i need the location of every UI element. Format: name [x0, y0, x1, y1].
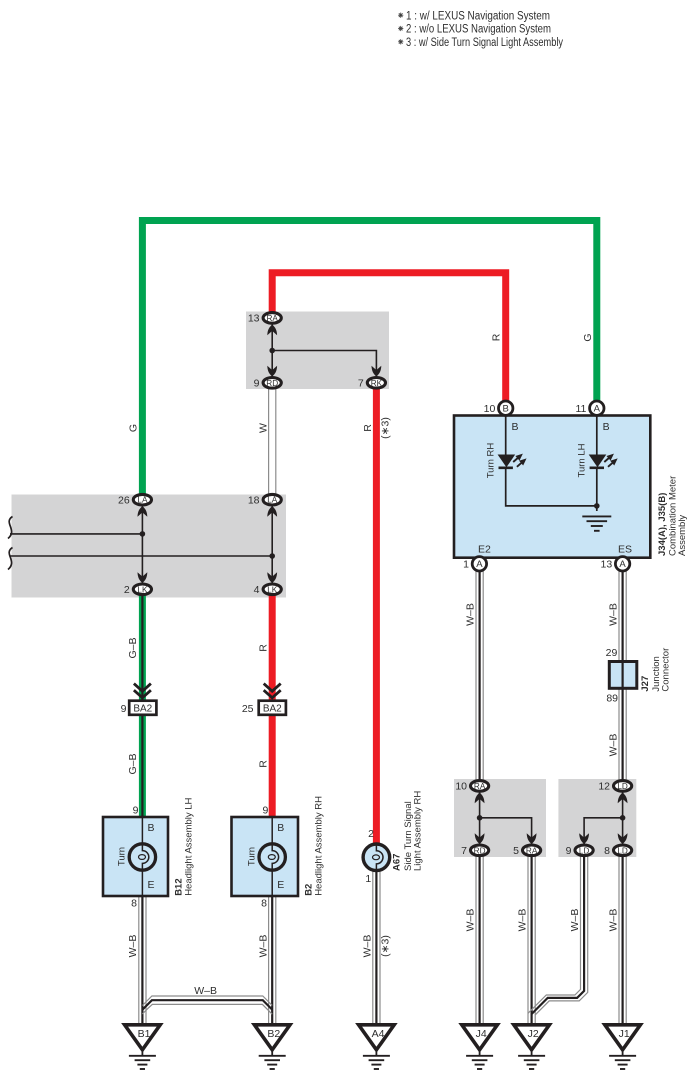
- svg-text:LA: LA: [267, 496, 278, 505]
- svg-text:B: B: [503, 404, 509, 415]
- svg-text:1: 1: [365, 873, 371, 885]
- oval terminal 18 LA: [263, 494, 281, 505]
- svg-text:13: 13: [248, 313, 260, 325]
- svg-text:LD: LD: [617, 846, 628, 855]
- shield connector 25 BA2: [259, 701, 286, 715]
- connector block shield (lower LD/LD/LD): [558, 779, 636, 857]
- wire: branch to 9LD: [584, 818, 623, 845]
- wire: vertical LA-LK right: [271, 504, 273, 585]
- wire W-B: 7RD to J4 ground: [476, 856, 483, 1025]
- wire R: red from 7RK to side turn signal A67: [373, 387, 380, 846]
- svg-text:8: 8: [131, 898, 137, 910]
- svg-text:Turn: Turn: [117, 847, 128, 866]
- svg-text:W–B: W–B: [516, 909, 528, 932]
- svg-text:Turn: Turn: [246, 847, 257, 866]
- svg-text:B: B: [277, 822, 284, 834]
- svg-text:26: 26: [118, 494, 130, 506]
- wire: branch RA to RK: [272, 351, 376, 379]
- ground J1: [605, 1025, 641, 1069]
- arrow down into 7RD: [475, 833, 485, 844]
- svg-text:G–B: G–B: [127, 753, 139, 774]
- svg-text:LK: LK: [267, 585, 278, 594]
- svg-text:B2: B2: [267, 1028, 280, 1040]
- svg-text:W–B: W–B: [464, 603, 476, 626]
- arrow down into 7RK: [372, 366, 382, 377]
- oval terminal 13 RA: [263, 313, 281, 324]
- wire W-B: headlight RH to B2 ground: [269, 896, 276, 1025]
- svg-text:A: A: [619, 559, 626, 570]
- svg-text:Headlight Assembly LH: Headlight Assembly LH: [184, 797, 195, 895]
- wire W-B: A67 to A4 ground: [373, 869, 380, 1025]
- wire: vertical 10RA to 7RD: [479, 791, 481, 845]
- svg-text:W–B: W–B: [127, 935, 139, 958]
- legend note *1: [398, 10, 550, 22]
- ground: meter internal ground symbol: [582, 516, 611, 530]
- svg-text:Headlight Assembly RH: Headlight Assembly RH: [313, 796, 324, 896]
- connector block shield (left, LA/LK): [12, 495, 287, 598]
- wire W-B: 8LD to J1 ground: [619, 856, 626, 1025]
- ground B1: [125, 1025, 161, 1069]
- svg-text:W–B: W–B: [194, 985, 217, 997]
- svg-text:BA2: BA2: [263, 704, 282, 715]
- svg-text:89: 89: [606, 693, 618, 705]
- shield connector 9 BA2: [129, 701, 156, 715]
- arrow up into 18LA: [267, 506, 277, 517]
- svg-text:J4: J4: [476, 1028, 487, 1040]
- oval terminal 7 RD: [471, 845, 489, 856]
- node junction dot line1: [140, 531, 146, 537]
- svg-text:9: 9: [262, 805, 268, 817]
- oval terminal 9 RD: [263, 378, 281, 389]
- svg-text:12: 12: [598, 781, 610, 793]
- svg-text:G: G: [582, 333, 594, 341]
- svg-text:E: E: [148, 879, 155, 891]
- oval terminal 2 LK: [133, 584, 151, 595]
- svg-text:3 : w/ Side Turn Signal Light: 3 : w/ Side Turn Signal Light Assembly: [406, 37, 563, 49]
- wire G-B: green/black from 2LK to headlight LH: [139, 594, 146, 818]
- wire W-B: 5RA to J2 ground: [528, 856, 535, 1025]
- wire: meter internal LED RH to junction: [506, 468, 597, 506]
- svg-text:Connector: Connector: [661, 648, 672, 692]
- combination meter U:J34/J35 box: [454, 416, 650, 558]
- svg-text:J27: J27: [640, 676, 651, 692]
- svg-text:LD: LD: [579, 846, 590, 855]
- LED D1 Turn RH: [498, 451, 529, 469]
- bulb: turn signal lamp LH: [129, 844, 155, 870]
- connector chevrons above 9 BA2: [134, 684, 151, 698]
- svg-text:R: R: [362, 424, 374, 432]
- svg-text:W–B: W–B: [607, 909, 619, 932]
- ground B2: [254, 1025, 290, 1069]
- svg-text:Turn RH: Turn RH: [485, 443, 496, 479]
- svg-text:LA: LA: [137, 496, 148, 505]
- svg-text:W–B: W–B: [569, 909, 581, 932]
- ground J2: [514, 1025, 550, 1069]
- wire: internal line 2 (left block): [10, 555, 272, 557]
- svg-text:8: 8: [604, 845, 610, 857]
- connector block shield (top, RA/RD/RK): [246, 312, 389, 390]
- oval terminal 10 RA: [471, 781, 489, 792]
- svg-text:9: 9: [254, 378, 260, 390]
- wire: meter internal LED LH to junction: [596, 468, 598, 511]
- svg-text:R: R: [258, 760, 270, 768]
- svg-text:Turn LH: Turn LH: [577, 443, 588, 477]
- svg-text:2: 2: [368, 828, 374, 840]
- oval terminal 5 RA: [523, 845, 541, 856]
- svg-text:(∗3): (∗3): [380, 935, 392, 957]
- oval terminal 7 RK: [367, 378, 385, 389]
- continuation squiggle on line 1: [8, 517, 13, 539]
- svg-text:B: B: [148, 822, 155, 834]
- legend note *3: [398, 37, 563, 49]
- wire W: white from 9RD down to 18LA: [269, 389, 276, 496]
- arrow down into 5RA: [527, 833, 537, 844]
- svg-text:J1: J1: [619, 1028, 630, 1040]
- svg-text:Assembly: Assembly: [677, 515, 688, 556]
- connector chevrons above 25 BA2: [264, 684, 281, 698]
- node junction dot (RA block): [269, 348, 275, 354]
- node junction dot (LD block): [620, 815, 626, 821]
- svg-text:J2: J2: [528, 1028, 539, 1040]
- wire W-B: 9LD jog joining J2 leg: [528, 856, 588, 1015]
- svg-text:LD: LD: [617, 782, 628, 791]
- terminal circle 10 B: [499, 401, 513, 415]
- wire: internal B to bulb RH: [271, 817, 273, 896]
- wire R: red from 13RA up across to meter 10B: [272, 273, 506, 402]
- wire W-B: link between B1 and B2 legs: [142, 996, 272, 1014]
- svg-text:B: B: [512, 421, 519, 433]
- svg-text:RA: RA: [267, 314, 279, 323]
- oval terminal 9 LD: [575, 845, 593, 856]
- continuation squiggle on line 2: [8, 548, 13, 570]
- svg-text:1 : w/ LEXUS Navigation System: 1 : w/ LEXUS Navigation System: [406, 10, 550, 22]
- oval terminal 8 LD: [614, 845, 632, 856]
- terminal circle 11 A: [590, 401, 604, 415]
- svg-text:10: 10: [455, 781, 467, 793]
- arrow up into 13RA: [267, 325, 277, 336]
- bulb: side turn signal light A67: [363, 844, 390, 871]
- ground J4: [462, 1025, 498, 1069]
- svg-text:RA: RA: [526, 846, 538, 855]
- node: meter internal junction dot: [594, 503, 600, 509]
- svg-text:RD: RD: [266, 379, 278, 388]
- svg-text:25: 25: [242, 703, 254, 715]
- svg-text:E2: E2: [478, 544, 491, 556]
- svg-text:W–B: W–B: [607, 734, 619, 757]
- wire W-B: meter ES to J27: [619, 570, 626, 662]
- arrow down into 9LD: [579, 833, 589, 844]
- headlight assembly LH box B12: [103, 817, 168, 896]
- svg-text:W–B: W–B: [464, 909, 476, 932]
- svg-text:11: 11: [575, 403, 586, 415]
- svg-text:A4: A4: [372, 1028, 385, 1040]
- svg-text:2 : w/o LEXUS Navigation Syste: 2 : w/o LEXUS Navigation System: [406, 24, 551, 36]
- svg-text:9: 9: [133, 805, 139, 817]
- wire: meter internal B(11) to LED LH: [596, 415, 598, 455]
- wire: vertical RA to RD: [271, 323, 273, 378]
- svg-text:G: G: [128, 424, 140, 432]
- terminal circle 1 A (E2): [472, 557, 486, 571]
- wire: meter internal B(10) to LED RH: [505, 415, 507, 455]
- wire: branch to 5RA: [480, 818, 532, 845]
- svg-text:E: E: [277, 879, 284, 891]
- oval terminal 12 LD: [614, 781, 632, 792]
- svg-text:Light Assembly RH: Light Assembly RH: [412, 791, 423, 871]
- arrow down into 2LK: [138, 572, 148, 583]
- arrow down into 9RD: [267, 366, 277, 377]
- svg-text:7: 7: [461, 845, 467, 857]
- svg-text:ES: ES: [618, 544, 632, 556]
- svg-text:W–B: W–B: [257, 935, 269, 958]
- svg-text:LK: LK: [137, 585, 148, 594]
- svg-text:W: W: [257, 423, 269, 433]
- wire W-B: meter E2 to 10RA: [476, 570, 483, 780]
- arrow down into 4LK: [267, 572, 277, 583]
- node junction dot line2: [269, 553, 275, 559]
- svg-text:5: 5: [513, 845, 519, 857]
- wire: internal line 1 (left block): [10, 533, 142, 535]
- bulb: turn signal lamp RH: [259, 844, 285, 870]
- connector block shield (lower RA/RD/RA): [454, 779, 546, 857]
- LED D2 Turn LH: [589, 451, 620, 469]
- svg-text:2: 2: [124, 584, 130, 596]
- wire R: red from 4LK to headlight RH: [269, 594, 276, 818]
- svg-text:BA2: BA2: [133, 704, 152, 715]
- ground A4: [359, 1025, 395, 1069]
- wire: internal B to bulb LH: [141, 817, 143, 896]
- svg-text:10: 10: [484, 403, 496, 415]
- svg-text:RK: RK: [371, 379, 383, 388]
- svg-text:8: 8: [261, 898, 267, 910]
- svg-text:G–B: G–B: [127, 637, 139, 658]
- svg-text:9: 9: [566, 845, 572, 857]
- oval terminal 26 LA: [133, 494, 151, 505]
- svg-text:RD: RD: [474, 846, 486, 855]
- svg-text:1: 1: [463, 559, 469, 571]
- headlight assembly RH box B2: [232, 817, 299, 896]
- legend note *2: [398, 24, 551, 36]
- wire W-B: headlight LH to B1 ground: [139, 896, 146, 1025]
- svg-text:29: 29: [606, 647, 618, 659]
- svg-text:13: 13: [601, 559, 613, 571]
- svg-text:A67: A67: [392, 854, 403, 871]
- svg-text:RA: RA: [474, 782, 486, 791]
- svg-text:R: R: [258, 644, 270, 652]
- svg-text:B: B: [603, 421, 610, 433]
- node junction dot (RA lower block): [477, 815, 483, 821]
- wire W-B: J27 to 12LD: [619, 688, 626, 780]
- arrow up into 26LA: [138, 506, 148, 517]
- svg-text:9: 9: [121, 703, 127, 715]
- svg-text:B1: B1: [138, 1028, 151, 1040]
- terminal circle 13 A (ES): [615, 557, 629, 571]
- svg-text:W–B: W–B: [607, 603, 619, 626]
- arrow down into 8LD: [618, 833, 628, 844]
- wire: vertical 12LD to 8LD: [622, 791, 624, 845]
- arrow up into 12LD: [618, 793, 628, 804]
- svg-text:18: 18: [248, 494, 260, 506]
- svg-text:(∗3): (∗3): [380, 417, 392, 439]
- svg-text:A: A: [476, 559, 483, 570]
- svg-text:A: A: [594, 404, 601, 415]
- wire G: green from 26LA up across to meter 11A: [142, 221, 596, 498]
- junction connector J27 box: [609, 662, 637, 689]
- svg-text:R: R: [491, 333, 503, 341]
- oval terminal 4 LK: [263, 584, 281, 595]
- wire: vertical LA-LK left: [141, 504, 143, 585]
- svg-text:4: 4: [254, 584, 260, 596]
- arrow up into 10RA: [475, 793, 485, 804]
- svg-text:7: 7: [358, 378, 364, 390]
- svg-text:W–B: W–B: [361, 935, 373, 958]
